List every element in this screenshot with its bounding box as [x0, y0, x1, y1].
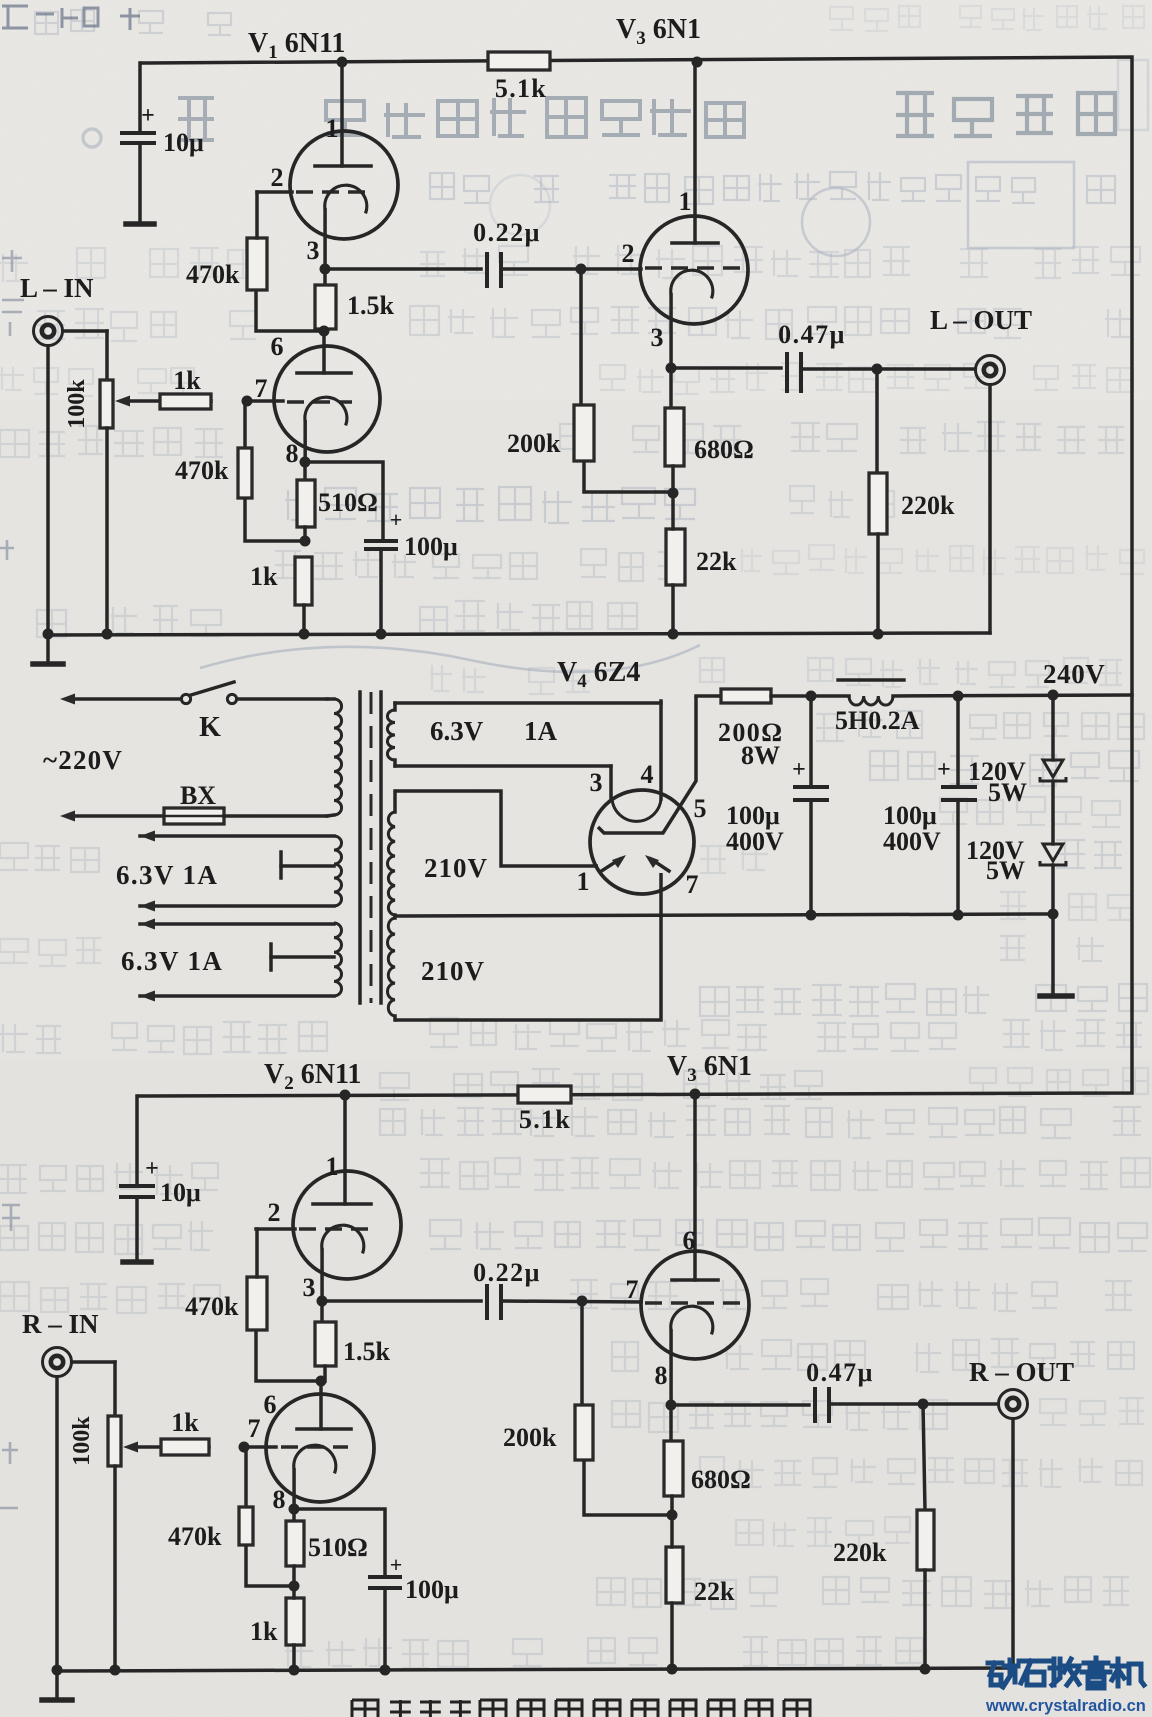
svg-text:470k: 470k	[168, 1522, 222, 1551]
svg-text:6: 6	[683, 1226, 696, 1255]
svg-text:8W: 8W	[741, 741, 780, 770]
svg-text:200k: 200k	[507, 429, 561, 458]
svg-text:3: 3	[651, 323, 664, 352]
svg-text:1k: 1k	[171, 1408, 199, 1437]
svg-text:7: 7	[255, 374, 268, 403]
svg-text:1k: 1k	[173, 366, 201, 395]
svg-text:1k: 1k	[250, 1617, 278, 1646]
svg-text:+: +	[390, 507, 403, 532]
svg-text:5W: 5W	[986, 856, 1025, 885]
svg-text:400V: 400V	[726, 827, 784, 856]
svg-text:+: +	[141, 103, 155, 129]
svg-text:220k: 220k	[833, 1538, 887, 1567]
svg-text:www.crystalradio.cn: www.crystalradio.cn	[985, 1697, 1146, 1715]
svg-text:510Ω: 510Ω	[308, 1533, 368, 1562]
svg-text:0.47μ: 0.47μ	[806, 1358, 874, 1387]
svg-text:470k: 470k	[175, 456, 229, 485]
svg-text:1.5k: 1.5k	[343, 1337, 391, 1366]
svg-text:2: 2	[271, 163, 284, 192]
svg-text:R – OUT: R – OUT	[969, 1357, 1074, 1387]
svg-text:100k: 100k	[69, 1416, 95, 1466]
svg-text:V3 6N1: V3 6N1	[667, 1051, 752, 1086]
svg-text:+: +	[145, 1156, 159, 1182]
svg-text:510Ω: 510Ω	[318, 488, 378, 517]
svg-text:3: 3	[590, 768, 603, 797]
svg-text:5.1k: 5.1k	[495, 74, 547, 103]
svg-text:L – OUT: L – OUT	[930, 305, 1032, 335]
svg-text:1: 1	[679, 187, 692, 216]
svg-text:V4 6Z4: V4 6Z4	[557, 657, 640, 692]
svg-text:210V: 210V	[424, 853, 488, 883]
svg-text:22k: 22k	[696, 547, 737, 576]
svg-text:100μ: 100μ	[726, 801, 780, 830]
svg-text:1: 1	[577, 867, 590, 896]
svg-text:10μ: 10μ	[163, 128, 204, 157]
svg-text:3: 3	[307, 236, 320, 265]
svg-text:6.3V 1A: 6.3V 1A	[121, 946, 223, 976]
svg-text:680Ω: 680Ω	[694, 435, 754, 464]
svg-text:400V: 400V	[883, 827, 941, 856]
svg-text:470k: 470k	[185, 1292, 239, 1321]
svg-text:V2 6N11: V2 6N11	[264, 1059, 361, 1094]
svg-text:100k: 100k	[64, 379, 90, 429]
svg-text:100μ: 100μ	[404, 532, 458, 561]
svg-text:4: 4	[641, 760, 654, 789]
svg-text:5W: 5W	[988, 778, 1027, 807]
svg-text:V1 6N11: V1 6N11	[248, 28, 345, 63]
svg-text:0.47μ: 0.47μ	[778, 320, 846, 349]
svg-text:1.5k: 1.5k	[347, 291, 395, 320]
svg-text:6.3V 1A: 6.3V 1A	[116, 860, 218, 890]
svg-text:1A: 1A	[524, 716, 558, 746]
svg-text:5.1k: 5.1k	[519, 1105, 571, 1134]
svg-text:6: 6	[264, 1390, 277, 1419]
svg-text:2: 2	[268, 1198, 281, 1227]
svg-text:100μ: 100μ	[883, 801, 937, 830]
svg-text:220k: 220k	[901, 491, 955, 520]
svg-text:K: K	[199, 712, 221, 743]
svg-text:10μ: 10μ	[160, 1178, 201, 1207]
svg-text:7: 7	[248, 1414, 261, 1443]
svg-text:5H0.2A: 5H0.2A	[835, 706, 920, 735]
svg-text:2: 2	[622, 239, 635, 268]
svg-text:+: +	[792, 757, 806, 783]
svg-text:+: +	[937, 757, 951, 783]
svg-text:8: 8	[286, 439, 299, 468]
svg-text:1k: 1k	[250, 562, 278, 591]
svg-text:+: +	[390, 1552, 403, 1577]
svg-text:8: 8	[655, 1361, 668, 1390]
svg-text:7: 7	[626, 1275, 639, 1304]
svg-text:3: 3	[303, 1273, 316, 1302]
svg-text:V3 6N1: V3 6N1	[616, 14, 701, 49]
svg-text:5: 5	[694, 794, 707, 823]
svg-text:22k: 22k	[694, 1577, 735, 1606]
svg-text:8: 8	[273, 1485, 286, 1514]
svg-text:210V: 210V	[421, 956, 485, 986]
svg-text:R – IN: R – IN	[22, 1309, 99, 1339]
svg-text:6.3V: 6.3V	[430, 716, 484, 746]
svg-text:0.22μ: 0.22μ	[473, 218, 541, 247]
svg-text:1: 1	[326, 1152, 339, 1181]
svg-text:200k: 200k	[503, 1423, 557, 1452]
svg-text:7: 7	[686, 870, 699, 899]
svg-text:470k: 470k	[186, 260, 240, 289]
svg-text:BX: BX	[180, 781, 216, 810]
svg-text:0.22μ: 0.22μ	[473, 1258, 541, 1287]
svg-text:~220V: ~220V	[43, 745, 123, 775]
svg-text:680Ω: 680Ω	[691, 1465, 751, 1494]
svg-text:240V: 240V	[1043, 659, 1105, 689]
svg-text:100μ: 100μ	[405, 1575, 459, 1604]
svg-text:6: 6	[271, 332, 284, 361]
svg-text:1: 1	[326, 114, 339, 143]
svg-text:L – IN: L – IN	[20, 273, 94, 303]
